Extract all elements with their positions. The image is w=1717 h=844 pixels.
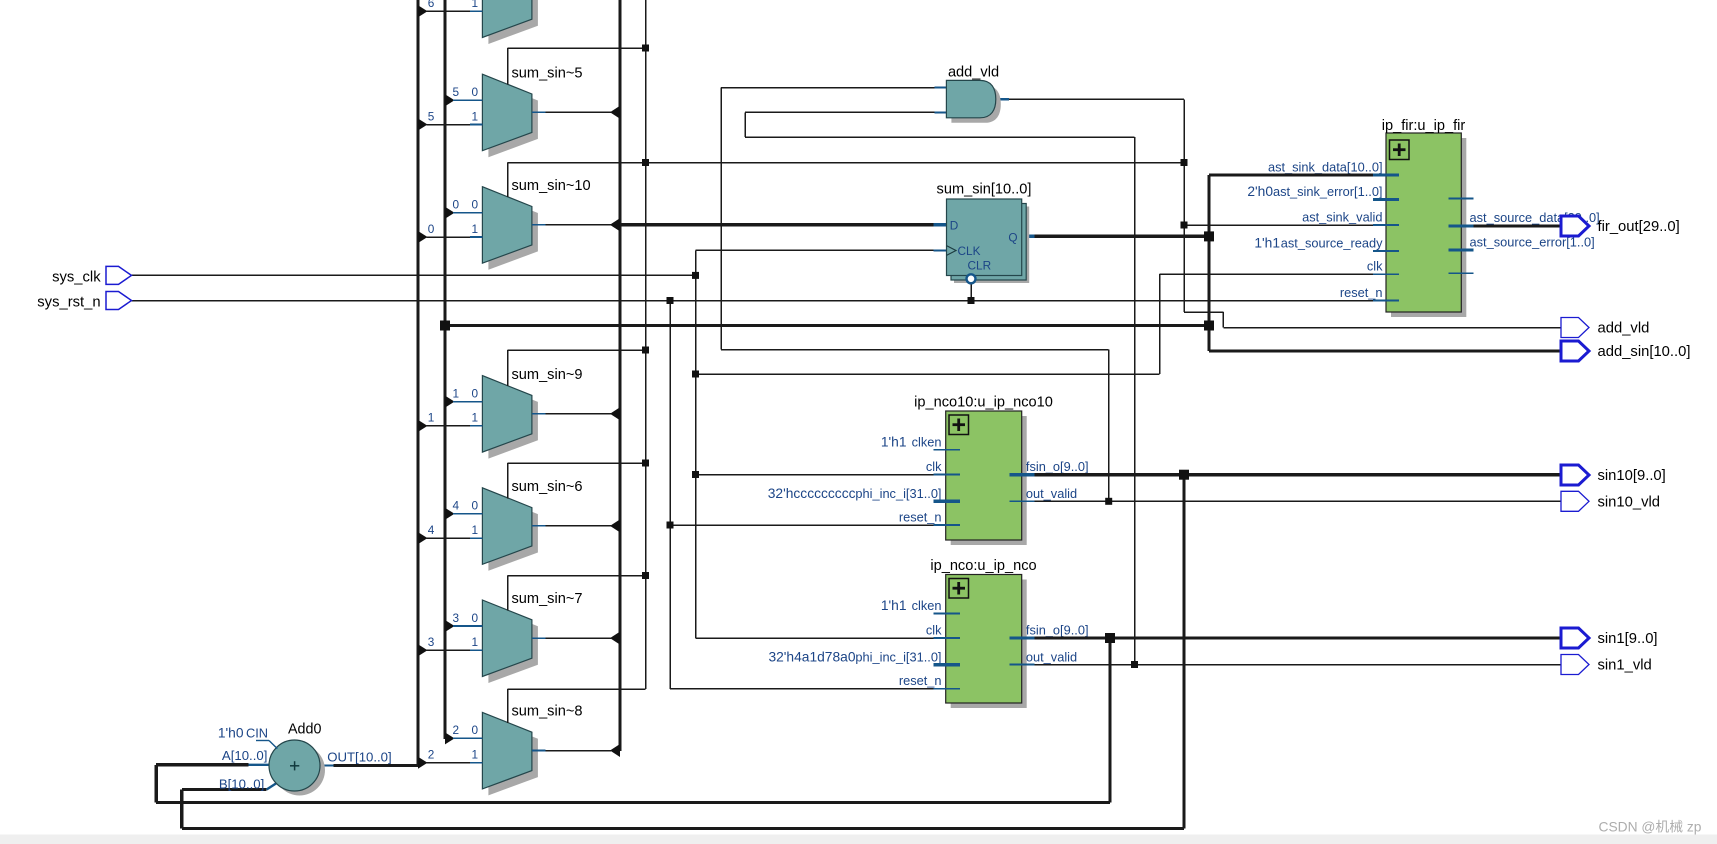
junction sys_clk branch x=695.5 xyxy=(692,272,699,279)
block ip_fir:u_ip_fir xyxy=(1247,118,1599,317)
svg-text:sum_sin~8: sum_sin~8 xyxy=(512,704,583,720)
port label B[10..0] of Add0 xyxy=(219,776,264,791)
svg-text:ip_nco:u_ip_nco: ip_nco:u_ip_nco xyxy=(930,558,1036,574)
junction add_vld select feed xyxy=(1181,159,1188,166)
wire mux sum_sin~10 output to bus x=620 xyxy=(532,218,620,231)
svg-text:reset_n: reset_n xyxy=(1340,285,1383,300)
junction sys_rst_n DFF CLR xyxy=(968,297,975,304)
svg-text:1'h0: 1'h0 xyxy=(218,726,244,741)
svg-text:add_vld: add_vld xyxy=(1598,321,1650,337)
svg-text:B[10..0]: B[10..0] xyxy=(219,776,264,791)
svg-text:sin10[9..0]: sin10[9..0] xyxy=(1598,468,1666,484)
wire select feeder for sum_sin~10 y=162.5 xyxy=(508,162,646,164)
wire sin10 loop down to Add0 B input xyxy=(182,475,1184,829)
wire sys_clk to ip_nco clk xyxy=(696,637,934,639)
wire sum_sin vertical x=1209 xyxy=(1207,175,1210,351)
svg-text:4: 4 xyxy=(428,523,435,537)
wire bus sum[10..0] vertical x=418 (Add0 OUT feedback) xyxy=(416,0,419,766)
svg-text:ast_sink_data[10..0]: ast_sink_data[10..0] xyxy=(1268,160,1383,175)
register DFF sum_sin[10..0] xyxy=(937,182,1032,284)
svg-text:fsin_o[9..0]: fsin_o[9..0] xyxy=(1026,623,1089,638)
junction select/feeder sum_sin~6 xyxy=(642,460,649,467)
svg-text:32'hccccccccc: 32'hccccccccc xyxy=(768,486,856,501)
wire sum_sin to output pin add_sin xyxy=(1209,349,1561,352)
output pin sin10_vld xyxy=(1561,491,1660,511)
wire select stub into mux sum_sin~8 xyxy=(507,689,509,723)
port label A[10..0] of Add0 xyxy=(222,748,267,763)
svg-text:CLK: CLK xyxy=(958,244,981,258)
wire sum_sin to ip_fir ast_sink_data xyxy=(1209,173,1399,176)
pin stub ip_nco phi_inc_i xyxy=(934,663,960,666)
mux sum_sin~5 xyxy=(482,65,582,157)
wire sum_sin bit 0 branch to mux sum_sin~10 input 0 xyxy=(445,198,482,219)
wire sum_sin bus y=325.5 to x=445 xyxy=(445,324,1209,327)
output pin sin1[9..0] xyxy=(1561,628,1658,648)
wire mux bus to DFF D input xyxy=(610,218,947,231)
wire select feeder for sum_sin~9 y=350 xyxy=(508,349,646,351)
output pin add_vld xyxy=(1561,318,1649,338)
svg-text:0: 0 xyxy=(472,723,479,737)
wire select feeder for sum_sin~7 y=575.5 xyxy=(508,575,646,577)
wire nco10 out_valid to AND gate input A xyxy=(721,88,1109,502)
svg-text:clken: clken xyxy=(912,435,942,450)
wire bus sum_sin_mux[10..0] vertical x=620 (mux outputs to D) xyxy=(618,0,621,751)
wire Add0 OUT to bus x=418 xyxy=(320,764,418,766)
svg-text:1: 1 xyxy=(472,635,479,649)
svg-text:5: 5 xyxy=(453,85,460,99)
mux sum_sin~8 xyxy=(482,704,582,796)
wire select stub into mux sum_sin~9 xyxy=(507,350,509,386)
wire mux sum_sin~5 output to bus x=620 xyxy=(532,106,620,119)
svg-text:ast_source_ready: ast_source_ready xyxy=(1281,236,1383,251)
svg-text:sin1_vld: sin1_vld xyxy=(1598,658,1652,674)
svg-text:1: 1 xyxy=(472,523,479,537)
wire select stub into mux sum_sin~10 xyxy=(507,163,509,198)
svg-text:add_vld: add_vld xyxy=(948,65,999,81)
junction select/feeder sum_sin~10 xyxy=(642,159,649,166)
svg-text:1: 1 xyxy=(472,109,479,123)
junction select/feeder sum_sin~9 xyxy=(642,347,649,354)
junction sin10 branch to Add0 B xyxy=(1179,470,1189,480)
value label 1'h0 CIN of Add0 xyxy=(218,726,277,749)
wire sum_sin bit 3 branch to mux sum_sin~7 input 0 xyxy=(445,611,482,632)
pin stub ip_fir unconnected outputs xyxy=(1449,199,1474,274)
output pin sin1_vld xyxy=(1561,655,1652,675)
watermark CSDN xyxy=(1599,820,1702,835)
wire add_vld horizontal y=162.5 (select feed) xyxy=(508,162,1185,164)
svg-text:1: 1 xyxy=(472,222,479,236)
wire sum bit 4 branch to mux sum_sin~6 input 1 xyxy=(418,523,482,544)
svg-text:1: 1 xyxy=(472,411,479,425)
svg-text:fir_out[29..0]: fir_out[29..0] xyxy=(1598,219,1680,235)
input pin sys_clk xyxy=(52,266,131,285)
port label OUT[10..0] of Add0 xyxy=(327,750,392,765)
wire add_vld jog to output pin add_vld xyxy=(1184,312,1561,328)
svg-text:3: 3 xyxy=(428,635,435,649)
wire sum bit 5 branch to mux sum_sin~5 input 1 xyxy=(418,109,482,130)
pin stub ip_nco clken xyxy=(934,613,960,615)
svg-text:sys_rst_n: sys_rst_n xyxy=(37,295,100,311)
mux sum_sin~6 xyxy=(482,479,582,571)
wire select stub into mux sum_sin~7 xyxy=(507,576,509,611)
svg-text:sum_sin~5: sum_sin~5 xyxy=(512,65,583,81)
pin stub ip_nco reset_n xyxy=(934,688,960,690)
svg-text:clken: clken xyxy=(912,598,942,613)
svg-text:1'h1: 1'h1 xyxy=(1254,236,1280,251)
wire nco10 fsin_o to output pin sin10 xyxy=(1009,473,1561,476)
svg-text:out_valid: out_valid xyxy=(1026,486,1077,501)
svg-text:ip_fir:u_ip_fir: ip_fir:u_ip_fir xyxy=(1382,118,1466,134)
wire nco fsin_o to output pin sin1 xyxy=(1009,636,1561,639)
svg-text:0: 0 xyxy=(428,222,435,236)
svg-text:sum_sin[10..0]: sum_sin[10..0] xyxy=(937,182,1032,198)
junction sum_sin bus/add_sin xyxy=(1204,321,1214,331)
gate AND add_vld xyxy=(946,65,1000,123)
wire sys_clk branch y=374 to x=1139 xyxy=(696,274,1160,374)
wire mux sum_sin~9 output to bus x=620 xyxy=(532,407,620,420)
svg-text:2'h0: 2'h0 xyxy=(1247,184,1273,199)
output pin add_sin[10..0] xyxy=(1561,341,1690,361)
svg-text:sin1[9..0]: sin1[9..0] xyxy=(1598,631,1658,647)
wire add_vld from AND gate output to x=1184 xyxy=(996,98,1184,100)
wire select stub into mux sum_sin~6 xyxy=(507,463,509,498)
pin stub ip_fir ast_source_ready constant input xyxy=(1373,250,1399,252)
svg-text:phi_inc_i[31..0]: phi_inc_i[31..0] xyxy=(855,649,941,664)
wire sum bit 0 branch to mux sum_sin~10 input 1 xyxy=(418,222,482,243)
wire add_vld select distribution vertical x=645.5 xyxy=(645,0,647,689)
wire sum bit 6 branch to mux sum_sin~x input 1 xyxy=(418,0,482,17)
svg-text:1: 1 xyxy=(428,411,435,425)
svg-text:add_sin[10..0]: add_sin[10..0] xyxy=(1598,344,1691,360)
svg-text:sum_sin~10: sum_sin~10 xyxy=(512,178,591,194)
svg-text:4: 4 xyxy=(453,499,460,513)
junction out_valid10 / sin10_vld xyxy=(1105,498,1112,505)
svg-text:fsin_o[9..0]: fsin_o[9..0] xyxy=(1026,459,1089,474)
block ip_nco:u_ip_nco xyxy=(768,558,1088,708)
wire sys_rst_n to ip_nco10 reset_n xyxy=(670,524,934,526)
block ip_nco10:u_ip_nco10 xyxy=(768,395,1089,546)
pin stub ip_nco10 reset_n xyxy=(934,524,960,526)
wire add_vld to ast_sink_valid of ip_fir xyxy=(1184,224,1399,226)
svg-text:A[10..0]: A[10..0] xyxy=(222,748,267,763)
svg-text:1: 1 xyxy=(453,386,460,400)
mux sum_sin~10 xyxy=(482,178,590,270)
clr bubble of DFF xyxy=(967,274,976,283)
pin stub ip_nco10 clk xyxy=(934,474,960,476)
svg-text:sin10_vld: sin10_vld xyxy=(1598,494,1661,510)
svg-text:3: 3 xyxy=(453,611,460,625)
junction sum_sin bus corner x=445 xyxy=(440,321,450,331)
wire sum_sin bit 5 branch to mux sum_sin~5 input 0 xyxy=(445,85,482,106)
svg-text:2: 2 xyxy=(428,748,435,762)
svg-text:clk: clk xyxy=(926,623,942,638)
svg-text:0: 0 xyxy=(472,611,479,625)
junction sum_sin Q branch xyxy=(1204,231,1214,241)
wire sys_clk to ip_fir clk xyxy=(1160,273,1400,275)
svg-text:5: 5 xyxy=(428,109,435,123)
mux sum_sin~x xyxy=(482,0,538,44)
wire sum bit 2 branch to mux sum_sin~8 input 1 xyxy=(418,748,482,769)
wire select feeder for sum_sin~6 y=463 xyxy=(508,462,646,464)
adder Add0 xyxy=(269,722,325,796)
svg-text:6: 6 xyxy=(428,0,435,10)
junction select/feeder sum_sin~7 xyxy=(642,572,649,579)
svg-text:CIN: CIN xyxy=(246,726,268,741)
wire sum_sin bit 2 branch to mux sum_sin~8 input 0 xyxy=(445,723,482,744)
wire sys_clk vertical x=695.5 xyxy=(695,250,697,638)
input pin sys_rst_n xyxy=(37,292,131,311)
wire sys_rst_n from input pin to ip_fir reset_n xyxy=(132,300,1400,302)
output pin sin10[9..0] xyxy=(1561,465,1666,485)
svg-text:0: 0 xyxy=(472,85,479,99)
wire sys_rst_n to DFF CLR bubble xyxy=(970,283,972,300)
wire sys_rst_n to ip_nco reset_n xyxy=(670,688,934,690)
svg-text:1: 1 xyxy=(472,0,479,10)
wire mux sum_sin~6 output to bus x=620 xyxy=(532,519,620,532)
junction out_valid1 / sin1_vld xyxy=(1131,661,1138,668)
pin stub ip_nco10 clken xyxy=(934,449,960,451)
svg-text:1'h1: 1'h1 xyxy=(881,598,907,613)
svg-text:CLR: CLR xyxy=(968,259,992,273)
svg-text:ast_sink_valid: ast_sink_valid xyxy=(1302,210,1382,225)
wire select feeder for sum_sin~5 y=48 xyxy=(508,47,646,49)
pin stub ip_nco clk xyxy=(934,637,960,639)
svg-text:0: 0 xyxy=(472,499,479,513)
svg-text:out_valid: out_valid xyxy=(1026,649,1077,664)
output pin fir_out[29..0] xyxy=(1561,216,1680,236)
svg-text:0: 0 xyxy=(472,386,479,400)
wire sin1 loop down to Add0 A input xyxy=(156,638,1110,803)
wire bus sum_sin[10..0] vertical x=445 (register Q feedback) xyxy=(443,0,446,739)
wire nco10 out_valid to output pin sin10_vld xyxy=(1009,500,1561,502)
wire sum bit 1 branch to mux sum_sin~9 input 1 xyxy=(418,411,482,432)
junction sys_clk branch y=374 xyxy=(692,371,699,378)
svg-text:sum_sin~9: sum_sin~9 xyxy=(512,367,583,383)
junction sys_rst_n nco10 reset xyxy=(667,522,674,529)
wire select stub into mux sum_sin~5 xyxy=(507,48,509,85)
wire nco out_valid to AND gate input B xyxy=(745,112,1135,664)
wire select feeder for sum_sin~8 y=689 xyxy=(508,688,646,690)
svg-text:reset_n: reset_n xyxy=(899,510,942,525)
junction sin1 branch to Add0 A xyxy=(1105,633,1115,643)
wire mux sum_sin~7 output to bus x=620 xyxy=(532,632,620,645)
svg-text:0: 0 xyxy=(472,198,479,212)
svg-text:OUT[10..0]: OUT[10..0] xyxy=(327,750,392,765)
pin stub ip_fir ast_sink_error constant input xyxy=(1373,198,1399,201)
wire sys_rst_n vertical x=670 xyxy=(669,301,671,689)
svg-text:sum_sin~7: sum_sin~7 xyxy=(512,591,583,607)
svg-text:ast_sink_error[1..0]: ast_sink_error[1..0] xyxy=(1273,184,1383,199)
svg-text:phi_inc_i[31..0]: phi_inc_i[31..0] xyxy=(855,486,941,501)
wire add_vld vertical x=1184 xyxy=(1183,99,1185,312)
svg-text:Add0: Add0 xyxy=(288,722,321,738)
mux sum_sin~7 xyxy=(482,591,582,683)
junction sys_rst_n branch x=670 xyxy=(667,297,674,304)
svg-text:sys_clk: sys_clk xyxy=(52,270,101,286)
svg-text:1'h1: 1'h1 xyxy=(881,435,907,450)
svg-text:32'h4a1d78a0: 32'h4a1d78a0 xyxy=(768,649,855,664)
wire sum_sin bit 4 branch to mux sum_sin~6 input 0 xyxy=(445,499,482,520)
wire sum bit 3 branch to mux sum_sin~7 input 1 xyxy=(418,635,482,656)
svg-text:reset_n: reset_n xyxy=(899,673,942,688)
svg-text:clk: clk xyxy=(1367,259,1383,274)
wire sys_clk from input pin to x=695.5 xyxy=(132,274,696,276)
junction add_vld ast_sink_valid xyxy=(1181,222,1188,229)
wire sys_clk to ip_nco10 clk xyxy=(696,474,934,476)
mux sum_sin~9 xyxy=(482,367,582,459)
svg-text:1: 1 xyxy=(472,748,479,762)
svg-text:2: 2 xyxy=(453,723,460,737)
svg-text:clk: clk xyxy=(926,459,942,474)
svg-text:Q: Q xyxy=(1008,231,1017,245)
pin stub ip_nco10 phi_inc_i xyxy=(934,500,960,503)
wire mux sum_sin~8 output to bus x=620 xyxy=(532,744,620,757)
wire nco out_valid to output pin sin1_vld xyxy=(1009,664,1561,666)
wire ip_fir ast_source_data to output pin fir_out xyxy=(1449,224,1562,227)
wire sum_sin bit 1 branch to mux sum_sin~9 input 0 xyxy=(445,386,482,407)
wire sys_clk to DFF CLK xyxy=(696,249,947,251)
svg-text:CSDN @机械 zp: CSDN @机械 zp xyxy=(1599,820,1702,835)
svg-text:ip_nco10:u_ip_nco10: ip_nco10:u_ip_nco10 xyxy=(914,395,1053,411)
wire sum_sin Q output to x=1209 xyxy=(1022,235,1209,238)
svg-text:D: D xyxy=(950,219,959,233)
svg-text:sum_sin~6: sum_sin~6 xyxy=(512,479,583,495)
junction sys_clk nco10 clk xyxy=(692,471,699,478)
junction select/feeder sum_sin~5 xyxy=(642,45,649,52)
svg-text:0: 0 xyxy=(453,198,460,212)
